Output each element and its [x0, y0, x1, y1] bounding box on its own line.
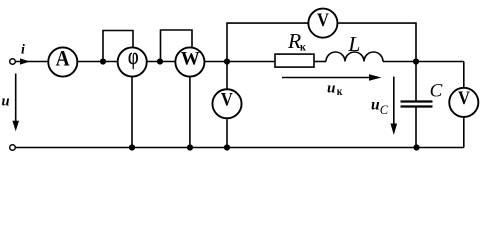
svg-text:к: к — [300, 41, 306, 54]
svg-text:C: C — [430, 80, 443, 101]
svg-text:u: u — [371, 97, 380, 114]
svg-text:u: u — [327, 80, 335, 97]
svg-text:A: A — [56, 47, 70, 70]
svg-text:V: V — [458, 87, 470, 108]
svg-text:φ: φ — [128, 43, 139, 70]
svg-text:W: W — [181, 49, 200, 70]
svg-text:i: i — [21, 42, 25, 57]
svg-text:C: C — [380, 103, 389, 117]
svg-text:R: R — [287, 29, 301, 53]
svg-text:к: к — [337, 85, 343, 98]
svg-text:V: V — [221, 88, 233, 109]
svg-text:u: u — [2, 94, 10, 110]
svg-text:L: L — [347, 32, 360, 56]
svg-text:V: V — [317, 9, 329, 30]
